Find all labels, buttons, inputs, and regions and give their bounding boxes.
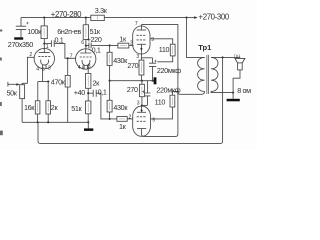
node top grid	[109, 44, 111, 46]
svg-text:430к: 430к	[113, 56, 128, 65]
transformer Tr1 core	[207, 55, 209, 94]
wire V1a grid to pot	[22, 57, 34, 84]
capacitor C6 plates	[149, 63, 156, 66]
svg-text:7: 7	[70, 53, 73, 59]
svg-text:4: 4	[78, 65, 81, 71]
svg-text:430к: 430к	[113, 103, 128, 112]
svg-text:470к: 470к	[51, 77, 66, 86]
tube V2 anode lead	[140, 25, 142, 30]
tube V1a cathode	[41, 60, 49, 66]
resistor R7 1k body	[118, 43, 129, 48]
tube V2 anode	[137, 29, 146, 31]
resistor R1 100k body	[41, 26, 47, 39]
wire 110 bottom to cap	[157, 56, 172, 62]
tube V2 cathode	[137, 43, 146, 45]
svg-text:Гр1: Гр1	[234, 54, 240, 58]
tube V1b anode	[80, 49, 91, 53]
capacitor C5 0.1 lower wire left	[88, 92, 93, 94]
capacitor C1 270x350 lead	[20, 18, 22, 27]
capacitor C7 bottom lead	[147, 96, 149, 106]
svg-text:7: 7	[135, 21, 138, 27]
capacitor C6 bottom lead	[152, 66, 154, 80]
wire node to 1k	[110, 118, 117, 120]
svg-text:100к: 100к	[27, 27, 42, 36]
svg-text:5: 5	[42, 67, 45, 73]
wire V2 anode run	[141, 25, 178, 92]
wire 2k top	[47, 82, 49, 101]
wire grid node to 430k top	[109, 45, 111, 52]
node V1a anode	[43, 43, 45, 45]
wire V3 screen run	[150, 107, 172, 119]
wire 16k top	[37, 82, 39, 101]
wire V3 cathode node	[142, 104, 148, 106]
svg-text:50к: 50к	[7, 88, 18, 97]
resistor R10 2k body	[86, 74, 91, 89]
capacitor C1 polarity plus	[26, 22, 28, 24]
svg-text:5: 5	[82, 65, 85, 71]
svg-text:1: 1	[46, 44, 49, 50]
wire secondary top	[211, 56, 240, 58]
svg-text:3: 3	[48, 66, 51, 72]
svg-text:2: 2	[130, 40, 133, 46]
tube V1b grid dashes	[80, 56, 92, 58]
capacitor C6 polarity plus	[154, 60, 156, 62]
wire 1k to V3 grid	[127, 118, 133, 120]
wire V1b cathode lead	[87, 66, 89, 74]
svg-text:+220: +220	[87, 35, 102, 44]
svg-text:0,1: 0,1	[98, 87, 107, 96]
wire C5 right to grid node	[96, 93, 109, 119]
capacitor C5 plates	[93, 90, 96, 97]
tube V2 envelope	[133, 26, 150, 54]
potentiometer R2 50k body	[20, 85, 25, 99]
capacitor C4 0.1 coupling wire	[86, 44, 89, 46]
wire 270 top lead	[140, 58, 142, 60]
node B+ out	[185, 17, 187, 19]
svg-text:+270-300: +270-300	[199, 13, 230, 22]
node V1a anode supply	[43, 17, 45, 19]
tube V3 envelope	[133, 106, 151, 136]
wire B+ arrow	[187, 17, 197, 19]
node V1b anode	[85, 45, 87, 47]
resistor R3 470k body	[65, 75, 70, 87]
svg-text:9: 9	[152, 117, 155, 123]
tube V3 anode lead	[142, 91, 178, 136]
tube V3 grid1 dashes	[137, 116, 147, 118]
wire 51k top lead	[85, 18, 87, 25]
svg-text:+270-280: +270-280	[51, 10, 82, 19]
tube V1b heater stubs	[84, 65, 87, 69]
wire 1k to V2 grid	[129, 45, 134, 47]
svg-text:0,1: 0,1	[92, 45, 101, 54]
wire V2 screen run	[150, 39, 173, 44]
wire to ground bar	[232, 93, 234, 99]
resistor R3 470k lead bottom	[67, 87, 69, 122]
node cathode return	[109, 80, 111, 82]
node +40	[87, 92, 89, 94]
capacitor C7 plates	[145, 93, 151, 96]
node secondary top	[222, 56, 224, 58]
svg-text:Тр1: Тр1	[198, 43, 212, 52]
tube V1b envelope	[76, 49, 96, 69]
wire 430k top to cathode line	[109, 65, 111, 100]
resistor R9 1k body bottom	[117, 117, 127, 122]
wire ground bus y122	[22, 121, 88, 123]
tube V1b cathode	[82, 60, 90, 66]
input terminal tick	[7, 82, 9, 87]
wire B+ top rail left	[21, 17, 91, 19]
transformer Tr1 secondary winding	[211, 57, 218, 91]
svg-text:3: 3	[136, 54, 139, 60]
resistor R17 430k top body	[107, 52, 112, 65]
wire V1b anode lead	[85, 39, 87, 49]
ground chassis bar speaker	[227, 99, 240, 102]
capacitor C6 220mkF top lead	[152, 58, 154, 63]
tube V1a grid dashes	[38, 56, 50, 58]
resistor R11 51k body bottom	[86, 101, 91, 114]
wire 270b bottom lead	[141, 97, 143, 106]
speaker Gr1	[239, 57, 241, 58]
resistor R6 51k body top	[83, 25, 88, 40]
svg-text:16к: 16к	[24, 103, 35, 112]
svg-text:3.3к: 3.3к	[95, 6, 108, 15]
tube V2 cathode lead	[140, 44, 142, 58]
capacitor C1 plates	[16, 26, 26, 29]
svg-text:2: 2	[129, 114, 132, 120]
transformer Tr1 primary winding	[198, 57, 205, 91]
wire pot bottom	[21, 99, 23, 123]
svg-text:8 ом: 8 ом	[237, 86, 251, 95]
tube V2 grid2 dashes	[137, 34, 147, 36]
tube V1a anode	[39, 48, 50, 52]
wire B+ drop to primary	[187, 18, 205, 58]
potentiometer R2 wiper	[8, 83, 19, 85]
resistor R1 100k lead top	[43, 18, 45, 26]
wire C2 to V1b grid	[54, 44, 75, 59]
wire B+ top rail right	[104, 17, 187, 19]
capacitor C4 plates	[89, 43, 91, 49]
wire 16k bottom	[37, 114, 39, 122]
capacitor C7 220mkF lower top lead	[147, 81, 149, 93]
tube V3 cathode lead	[141, 105, 143, 112]
wire feedback line and bottom rail	[38, 57, 223, 143]
node cap column	[152, 80, 154, 82]
node primary bottom	[177, 90, 179, 92]
tube V1a heater stubs	[43, 65, 46, 69]
node cathode divider	[47, 80, 49, 82]
svg-text:4: 4	[36, 67, 39, 73]
svg-text:6: 6	[81, 40, 84, 46]
svg-text:+40: +40	[74, 88, 85, 97]
resistor R13 110 body	[170, 44, 175, 56]
node V1b grid	[67, 57, 69, 59]
resistor R3 470k lead top	[67, 58, 69, 75]
tube V2 grid1 dashes	[137, 39, 147, 41]
node V3 cathode	[141, 104, 143, 106]
wire 430k bottom	[109, 112, 111, 119]
svg-text:270x350: 270x350	[8, 40, 33, 49]
svg-text:110: 110	[159, 45, 170, 54]
wire 2k bottom	[47, 114, 49, 122]
wire speaker return	[233, 70, 240, 93]
svg-text:220мкф: 220мкф	[156, 86, 180, 95]
resistor R16 3.3k body	[91, 15, 105, 20]
svg-text:270: 270	[127, 61, 138, 70]
node 51k junction	[87, 121, 89, 123]
node V3 g3 tie	[141, 109, 143, 111]
tube V3 anode	[137, 128, 146, 130]
tube V1a envelope	[34, 48, 54, 68]
edge artifact marks	[0, 30, 3, 136]
wire 110b top lead	[171, 91, 173, 95]
svg-text:0,1: 0,1	[55, 35, 64, 44]
resistor R15 110 body bottom	[170, 95, 175, 107]
wire C4 to grid node	[91, 44, 118, 46]
wire ground drop	[87, 122, 89, 128]
wire 270b top lead	[141, 81, 143, 85]
wire 270 bottom lead	[140, 75, 142, 81]
svg-text:220мкф: 220мкф	[157, 66, 181, 75]
ground chassis bar mid	[84, 128, 93, 131]
resistor R12 270 body	[139, 60, 144, 75]
wire 51k bottom lead	[87, 114, 89, 123]
capacitor C7 polarity plus	[142, 91, 144, 93]
tube V3 cathode	[137, 111, 146, 113]
resistor R14 270 body bottom	[140, 84, 145, 96]
node bottom grid	[109, 118, 111, 120]
svg-text:51к: 51к	[71, 104, 82, 113]
wire 2k bottom lead	[87, 88, 89, 101]
svg-text:2: 2	[29, 52, 32, 58]
ground chassis bar right	[154, 77, 157, 84]
wire cathode node line	[38, 81, 50, 83]
wire cathode ground line	[110, 80, 154, 82]
capacitor C2 plates	[51, 40, 54, 47]
resistor R5 2k body	[46, 101, 51, 114]
wire V1a cathode lead	[42, 69, 44, 82]
svg-text:3: 3	[137, 100, 140, 106]
node speaker return	[232, 92, 234, 94]
capacitor C1 lower lead	[20, 30, 22, 38]
wire secondary bottom	[211, 91, 233, 92]
ground chassis bar C1	[14, 37, 23, 39]
wire V2 cathode node	[141, 57, 152, 59]
resistor R8 430k body	[107, 100, 112, 112]
wire primary bottom	[172, 91, 204, 94]
node V1b anode supply	[85, 17, 87, 19]
node 16k junction	[37, 121, 39, 123]
capacitor C2 0.1 coupling wire	[44, 43, 51, 45]
svg-text:9: 9	[151, 37, 154, 43]
svg-text:8: 8	[88, 64, 91, 70]
resistor R4 16k body	[35, 101, 40, 114]
node V2 g3 tie	[140, 48, 142, 50]
node 2k junction	[47, 121, 49, 123]
node 270 top	[141, 80, 143, 82]
svg-text:110: 110	[155, 98, 166, 107]
resistor R1 100k lead bottom	[43, 39, 45, 49]
svg-text:270: 270	[127, 85, 138, 94]
tube V3 grid2 dashes	[137, 120, 147, 122]
